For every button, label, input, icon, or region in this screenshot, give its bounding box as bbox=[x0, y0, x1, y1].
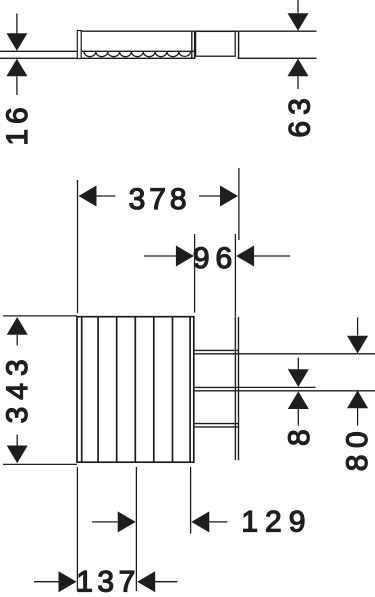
dim 16: lower leader line bbox=[16, 76, 18, 95]
dim 16: down arrow bbox=[6, 33, 27, 51]
dim 80/8: bar1 extension line bbox=[239, 353, 375, 355]
front view: mounting bar 2 bottom line bbox=[195, 390, 239, 392]
dim 129: left tail bbox=[92, 521, 118, 523]
top view: rail front line (16mm from wall) bbox=[0, 50, 195, 52]
front view: slat line 7 bbox=[189, 317, 191, 462]
dim 8/80: bar2 bottom extension line bbox=[239, 390, 375, 392]
top view: wall line right segment bbox=[238, 57, 317, 59]
dim 96: right arrow bbox=[236, 246, 254, 267]
dim 343: down arrow bbox=[7, 446, 28, 464]
dim 137: left tail bbox=[34, 581, 59, 583]
dim 96: right extension line bbox=[234, 234, 236, 317]
dim 129: right tail bbox=[209, 521, 227, 523]
top view: left end post bbox=[77, 31, 81, 59]
dim 8: up arrow bbox=[288, 391, 309, 409]
front view: slat line 4 bbox=[134, 317, 136, 462]
dim 378: left tail bbox=[97, 195, 116, 197]
top view: right post inner line bbox=[191, 31, 193, 59]
front view: mounting bar 1 top line bbox=[195, 349, 239, 351]
dim 16: upper leader line bbox=[16, 14, 18, 34]
svg-text:8: 8 bbox=[283, 424, 316, 446]
dim 16: up arrow bbox=[6, 59, 27, 77]
dim 343: up arrow bbox=[7, 317, 28, 335]
front view: mounting bar 1 bottom line bbox=[195, 353, 239, 355]
svg-text:137: 137 bbox=[76, 565, 140, 597]
dim 343: lower tail bbox=[16, 435, 18, 446]
dim 129/137: shared middle extension line bbox=[135, 467, 137, 591]
dim 80: upper leader line bbox=[357, 317, 359, 335]
dim 343: upper tail bbox=[16, 335, 18, 346]
svg-text:129: 129 bbox=[241, 506, 312, 539]
dim 378: right arrow bbox=[220, 186, 238, 207]
front view: wall plate right line bbox=[238, 317, 240, 460]
dim 63: lower leader line bbox=[297, 76, 299, 89]
dim 80: up arrow bbox=[347, 390, 368, 408]
front view: mounting bar 3 bottom line bbox=[195, 426, 239, 428]
front view: shelf outer rectangle bbox=[77, 317, 194, 463]
front view: slat line 6 bbox=[172, 317, 174, 462]
top view: shelf front edge line (63mm from wall) bbox=[81, 30, 317, 32]
dim 137: right arrow bbox=[137, 571, 155, 592]
dim 129: right arrow bbox=[191, 511, 209, 532]
front view: slat line 2 bbox=[97, 317, 99, 462]
dim 96: left arrow bbox=[176, 246, 194, 267]
dim 80: lower leader line bbox=[357, 408, 359, 425]
front view: slat line 3 bbox=[116, 317, 118, 462]
dim 378: right tail bbox=[199, 195, 220, 197]
svg-text:16: 16 bbox=[1, 102, 34, 145]
dim 378: left extension line bbox=[77, 180, 79, 313]
front view: slat line 1 bbox=[81, 317, 83, 462]
svg-text:343: 343 bbox=[1, 352, 34, 423]
dim 96: left extension line bbox=[194, 234, 196, 313]
dim 96: left tail bbox=[144, 255, 177, 257]
top view: wall plate end line bbox=[238, 31, 240, 59]
dim 378: left arrow bbox=[79, 186, 97, 207]
dim 8: lower leader line bbox=[297, 409, 299, 426]
top view: scalloped rail (9 arcs) bbox=[84, 52, 191, 57]
svg-text:96: 96 bbox=[193, 242, 238, 275]
svg-text:80: 80 bbox=[341, 425, 374, 471]
front view: mounting bar 3 top line bbox=[195, 423, 239, 425]
dim 129/137: shared extension line at shelf left edge bbox=[76, 467, 78, 592]
front view: mounting bar 2 top line bbox=[195, 386, 239, 388]
svg-text:63: 63 bbox=[284, 92, 317, 137]
dim 129: left arrow bbox=[118, 511, 136, 532]
dim 63: up arrow bbox=[288, 59, 309, 77]
front view: slat line 5 bbox=[153, 317, 155, 462]
dim 378: right extension line bbox=[238, 168, 240, 240]
dim 96: right tail bbox=[254, 255, 290, 257]
dim 343: top extension line bbox=[3, 315, 77, 317]
dim 8: bar2 top extension line bbox=[239, 386, 316, 388]
dim 343: bottom extension line bbox=[3, 463, 77, 465]
top view: wall line left segment bbox=[0, 57, 196, 59]
dim 80: down arrow bbox=[347, 336, 368, 354]
dim 63: upper leader line bbox=[297, 0, 299, 13]
top view: wall bracket box bbox=[196, 31, 236, 56]
dim 137: left arrow bbox=[59, 571, 77, 592]
dim 8: down arrow bbox=[288, 369, 309, 387]
dim 129: right extension line bbox=[190, 467, 192, 534]
dim 137: right tail bbox=[155, 581, 177, 583]
top view: right post outer line bbox=[194, 31, 196, 59]
svg-text:378: 378 bbox=[129, 183, 191, 216]
dim 63: down arrow bbox=[288, 13, 309, 31]
dim 8: upper leader line bbox=[297, 358, 299, 370]
front view: wall plate left line bbox=[234, 317, 236, 460]
